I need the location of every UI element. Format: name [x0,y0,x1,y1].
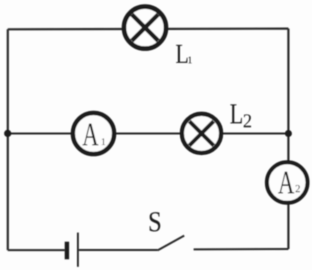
battery cell negative plate [65,242,69,260]
node junction right [285,130,292,137]
label L2 [230,104,251,127]
lamp L2 [182,114,221,153]
wire right [287,29,289,249]
battery cell positive plate [77,233,79,267]
label L1 [176,45,192,63]
node junction left [4,130,11,137]
wire top [8,28,289,31]
ammeter A2 [267,162,308,203]
wire switch to right [194,248,289,250]
wire battery to switch [79,249,158,251]
wire middle branch [8,133,289,135]
wire left [7,29,9,250]
label S [150,212,161,231]
lamp L1 [124,7,166,49]
wire bottom left [8,249,65,251]
ammeter A1 [73,113,114,154]
switch S arm [158,236,185,251]
